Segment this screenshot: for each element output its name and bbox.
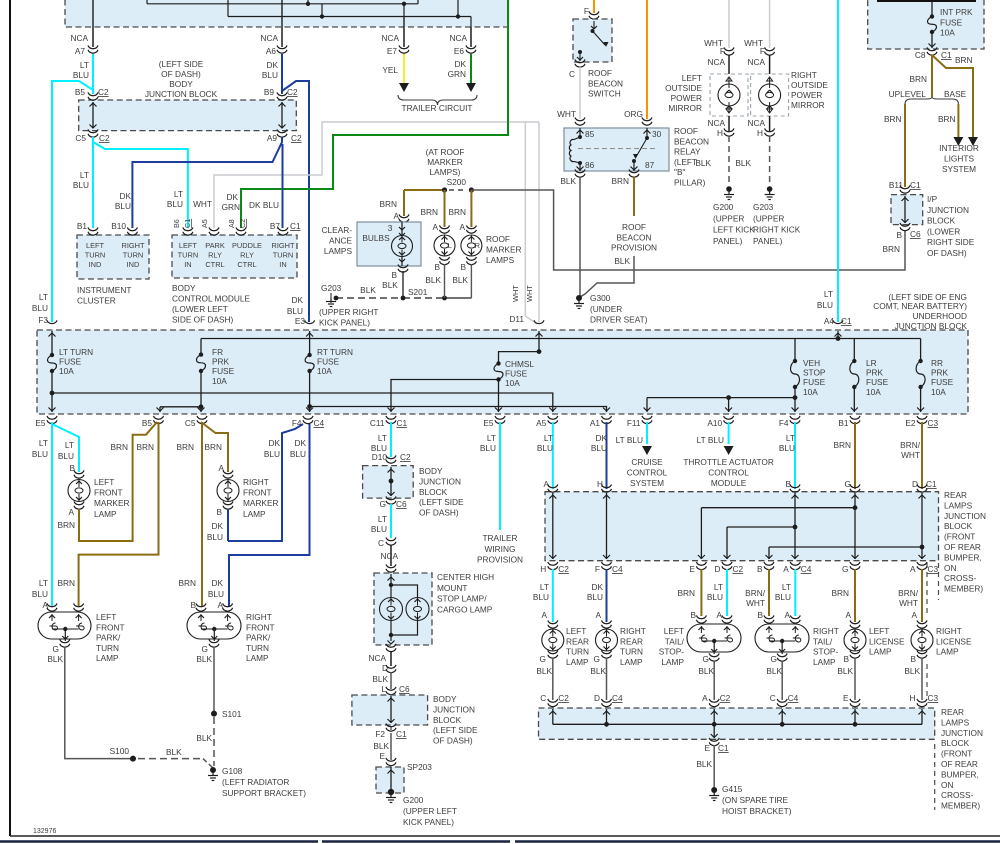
svg-text:MEMBER): MEMBER) xyxy=(944,584,983,594)
svg-text:F: F xyxy=(760,46,765,56)
svg-text:C4: C4 xyxy=(788,693,799,703)
svg-text:B9: B9 xyxy=(264,87,275,97)
svg-text:LEFT: LEFT xyxy=(682,73,702,83)
svg-text:C4: C4 xyxy=(612,564,623,574)
svg-text:BLU: BLU xyxy=(73,180,89,190)
svg-text:BLK: BLK xyxy=(372,674,388,684)
svg-text:JUNCTION: JUNCTION xyxy=(433,704,475,714)
svg-text:RIGHT: RIGHT xyxy=(936,626,962,636)
svg-text:OF DASH): OF DASH) xyxy=(927,248,967,258)
svg-text:(UPPER: (UPPER xyxy=(713,213,744,223)
svg-text:REAR: REAR xyxy=(944,490,967,500)
svg-text:ROOF: ROOF xyxy=(486,234,510,244)
svg-text:A: A xyxy=(541,610,547,620)
svg-text:G108: G108 xyxy=(222,766,243,776)
svg-text:FUSE: FUSE xyxy=(803,377,826,387)
svg-text:BLU: BLU xyxy=(707,592,723,602)
svg-text:TRAILER CIRCUIT: TRAILER CIRCUIT xyxy=(402,103,473,113)
svg-text:BLU: BLU xyxy=(287,306,303,316)
svg-text:TAIL/: TAIL/ xyxy=(813,636,833,646)
svg-text:BLU: BLU xyxy=(587,592,603,602)
svg-text:G415: G415 xyxy=(722,784,743,794)
svg-text:RIGHT: RIGHT xyxy=(243,477,269,487)
svg-text:B: B xyxy=(910,654,916,664)
svg-text:10A: 10A xyxy=(317,366,332,376)
svg-text:"B": "B" xyxy=(674,167,685,177)
svg-text:BLK: BLK xyxy=(614,256,630,266)
svg-text:INTERIOR: INTERIOR xyxy=(939,143,979,153)
svg-text:CARGO LAMP: CARGO LAMP xyxy=(437,604,493,614)
svg-text:(UPPER: (UPPER xyxy=(753,213,784,223)
svg-text:C2: C2 xyxy=(98,87,109,97)
svg-text:LEFT: LEFT xyxy=(96,612,116,622)
svg-text:LT: LT xyxy=(378,433,387,443)
svg-text:G: G xyxy=(540,654,546,664)
svg-text:WHT: WHT xyxy=(746,598,765,608)
svg-text:LT: LT xyxy=(487,433,496,443)
svg-text:JUNCTION: JUNCTION xyxy=(927,205,969,215)
svg-text:C11: C11 xyxy=(370,418,385,428)
svg-text:FUSE: FUSE xyxy=(940,17,963,27)
svg-text:MEMBER): MEMBER) xyxy=(941,801,980,811)
svg-text:BLU: BLU xyxy=(264,449,280,459)
svg-text:GRN: GRN xyxy=(448,69,466,79)
svg-text:A5: A5 xyxy=(536,418,547,428)
svg-text:KICK PANEL): KICK PANEL) xyxy=(403,817,454,827)
svg-text:85: 85 xyxy=(585,129,595,139)
svg-text:IND: IND xyxy=(127,260,140,269)
svg-text:R: R xyxy=(475,241,480,250)
svg-text:A: A xyxy=(68,507,74,517)
svg-text:BRN/: BRN/ xyxy=(900,440,921,450)
svg-text:G: G xyxy=(594,654,600,664)
svg-text:LT: LT xyxy=(80,170,89,180)
svg-text:IN: IN xyxy=(279,260,286,269)
svg-text:A: A xyxy=(911,610,917,620)
svg-text:C3: C3 xyxy=(928,564,939,574)
svg-text:E2: E2 xyxy=(905,418,916,428)
svg-text:10A: 10A xyxy=(803,387,818,397)
svg-text:G200: G200 xyxy=(713,202,734,212)
svg-text:LEFT: LEFT xyxy=(566,626,586,636)
svg-text:G203: G203 xyxy=(321,283,342,293)
svg-text:LT: LT xyxy=(540,582,549,592)
svg-text:LAMP: LAMP xyxy=(869,647,892,657)
svg-text:BODY: BODY xyxy=(419,466,443,476)
svg-text:C: C xyxy=(770,693,776,703)
svg-text:LT: LT xyxy=(782,582,791,592)
svg-text:E: E xyxy=(689,564,695,574)
svg-text:H: H xyxy=(910,693,916,703)
svg-text:B6: B6 xyxy=(172,219,181,228)
svg-text:BLK: BLK xyxy=(196,654,212,664)
svg-text:(UPPER RIGHT: (UPPER RIGHT xyxy=(319,307,378,317)
svg-text:JUNCTION: JUNCTION xyxy=(941,728,983,738)
svg-text:LAMPS): LAMPS) xyxy=(430,167,461,177)
svg-text:E7: E7 xyxy=(387,46,398,56)
svg-text:FRONT: FRONT xyxy=(246,622,275,632)
svg-text:FRONT: FRONT xyxy=(96,622,125,632)
svg-text:10A: 10A xyxy=(59,366,74,376)
svg-text:RIGHT: RIGHT xyxy=(791,70,817,80)
svg-text:LT: LT xyxy=(174,189,183,199)
svg-text:ON: ON xyxy=(941,780,953,790)
svg-text:C1: C1 xyxy=(183,219,192,228)
svg-text:CONTROL: CONTROL xyxy=(627,467,668,477)
svg-text:OF REAR: OF REAR xyxy=(944,542,981,552)
svg-text:LEFT: LEFT xyxy=(869,626,889,636)
svg-text:DRIVER SEAT): DRIVER SEAT) xyxy=(590,315,648,325)
svg-text:REAR: REAR xyxy=(941,707,964,717)
svg-text:BRN: BRN xyxy=(884,114,902,124)
svg-text:BLK: BLK xyxy=(766,666,782,676)
svg-text:JUNCTION: JUNCTION xyxy=(419,476,461,486)
svg-text:BLU: BLU xyxy=(208,589,224,599)
svg-text:LAMP: LAMP xyxy=(620,657,643,667)
svg-text:LAMP: LAMP xyxy=(936,647,959,657)
svg-text:TURN: TURN xyxy=(123,250,144,259)
svg-text:WIRING: WIRING xyxy=(485,544,516,554)
svg-text:LT: LT xyxy=(714,582,723,592)
svg-text:G: G xyxy=(842,564,848,574)
svg-text:SUPPORT BRACKET): SUPPORT BRACKET) xyxy=(222,788,306,798)
svg-text:OF DASH): OF DASH) xyxy=(419,508,459,518)
svg-text:DK: DK xyxy=(226,192,238,202)
svg-text:LAMP: LAMP xyxy=(94,509,117,519)
svg-text:C8: C8 xyxy=(915,50,926,60)
svg-text:G: G xyxy=(703,654,709,664)
svg-text:10A: 10A xyxy=(940,28,955,38)
svg-text:B5: B5 xyxy=(75,87,86,97)
svg-text:ROOF: ROOF xyxy=(588,68,612,78)
svg-text:OF DASH): OF DASH) xyxy=(161,69,201,79)
svg-text:A5: A5 xyxy=(200,219,209,228)
svg-text:C5: C5 xyxy=(185,418,196,428)
svg-text:TURN: TURN xyxy=(620,647,643,657)
svg-text:COMT, NEAR BATTERY): COMT, NEAR BATTERY) xyxy=(873,301,967,311)
svg-text:LEFT: LEFT xyxy=(179,241,198,250)
svg-text:D11: D11 xyxy=(509,314,524,324)
svg-text:DK: DK xyxy=(291,295,303,305)
svg-text:BASE: BASE xyxy=(944,89,967,99)
svg-text:RIGHT: RIGHT xyxy=(246,612,272,622)
svg-text:LAMPS: LAMPS xyxy=(941,717,970,727)
svg-text:SYSTEM: SYSTEM xyxy=(630,478,664,488)
svg-text:D: D xyxy=(594,693,600,703)
svg-text:B: B xyxy=(896,230,902,240)
svg-text:S101: S101 xyxy=(222,709,242,719)
svg-text:BLU: BLU xyxy=(817,300,833,310)
svg-text:RIGHT: RIGHT xyxy=(272,241,295,250)
svg-text:B5: B5 xyxy=(142,418,153,428)
svg-text:S100: S100 xyxy=(110,746,130,756)
svg-text:C4: C4 xyxy=(314,418,325,428)
svg-text:LT BLU: LT BLU xyxy=(616,435,643,445)
svg-text:LAMPS: LAMPS xyxy=(944,500,973,510)
svg-text:LAMP: LAMP xyxy=(813,657,836,667)
svg-text:FRONT: FRONT xyxy=(243,488,272,498)
svg-text:C2: C2 xyxy=(720,693,731,703)
svg-text:C2: C2 xyxy=(287,87,298,97)
svg-text:BEACON: BEACON xyxy=(674,136,709,146)
svg-text:(LOWER LEFT: (LOWER LEFT xyxy=(172,304,228,314)
svg-text:A: A xyxy=(845,610,851,620)
svg-text:BLU: BLU xyxy=(591,443,607,453)
svg-text:BLK: BLK xyxy=(360,285,376,295)
svg-text:E: E xyxy=(843,693,849,703)
svg-text:B: B xyxy=(757,564,763,574)
svg-text:E: E xyxy=(379,751,385,761)
svg-text:C2: C2 xyxy=(400,452,411,462)
svg-text:BODY: BODY xyxy=(169,79,193,89)
svg-text:(AT ROOF: (AT ROOF xyxy=(426,147,465,157)
svg-text:PANEL): PANEL) xyxy=(753,236,783,246)
svg-text:RIGHT SIDE: RIGHT SIDE xyxy=(927,237,975,247)
svg-text:3: 3 xyxy=(388,223,393,233)
svg-text:THROTTLE ACTUATOR: THROTTLE ACTUATOR xyxy=(683,457,774,467)
svg-text:LEFT: LEFT xyxy=(86,241,105,250)
svg-text:BULBS: BULBS xyxy=(362,233,390,243)
svg-text:INSTRUMENT: INSTRUMENT xyxy=(77,285,131,295)
svg-text:PARK/: PARK/ xyxy=(246,633,271,643)
svg-text:D: D xyxy=(912,479,918,489)
svg-text:B1: B1 xyxy=(77,221,88,231)
svg-text:NCA: NCA xyxy=(70,33,88,43)
svg-text:PANEL): PANEL) xyxy=(713,236,743,246)
svg-text:30: 30 xyxy=(652,129,662,139)
svg-text:(LEFT RADIATOR: (LEFT RADIATOR xyxy=(222,777,289,787)
svg-text:JUNCTION BLOCK: JUNCTION BLOCK xyxy=(145,89,218,99)
svg-text:MARKER: MARKER xyxy=(486,245,522,255)
svg-text:FUSE: FUSE xyxy=(59,357,82,367)
svg-text:ROOF: ROOF xyxy=(622,222,646,232)
svg-text:RIGHT KICK: RIGHT KICK xyxy=(753,225,801,235)
svg-text:DK: DK xyxy=(268,438,280,448)
svg-text:BLU: BLU xyxy=(32,589,48,599)
svg-text:BUMPER,: BUMPER, xyxy=(941,769,979,779)
svg-text:NCA: NCA xyxy=(449,33,467,43)
svg-text:BLU: BLU xyxy=(775,592,791,602)
svg-text:L: L xyxy=(448,241,452,250)
svg-text:WHT: WHT xyxy=(511,285,520,302)
svg-text:(FRONT: (FRONT xyxy=(941,749,972,759)
svg-text:MARKER: MARKER xyxy=(94,498,130,508)
svg-text:KICK PANEL): KICK PANEL) xyxy=(319,318,370,328)
svg-text:BLK: BLK xyxy=(166,747,182,757)
svg-text:CLUSTER: CLUSTER xyxy=(77,296,116,306)
svg-text:BRN: BRN xyxy=(955,55,973,65)
svg-text:A: A xyxy=(910,564,916,574)
svg-text:FUSE: FUSE xyxy=(505,369,528,379)
svg-text:DK: DK xyxy=(595,433,607,443)
svg-text:C6: C6 xyxy=(399,684,410,694)
svg-text:F: F xyxy=(595,564,600,574)
svg-text:BEACON: BEACON xyxy=(616,232,651,242)
svg-text:(LEFT SIDE: (LEFT SIDE xyxy=(419,497,464,507)
svg-text:A8: A8 xyxy=(227,219,236,228)
svg-text:PRK: PRK xyxy=(212,357,230,367)
svg-text:TURN: TURN xyxy=(96,643,119,653)
svg-text:C1: C1 xyxy=(290,221,301,231)
svg-text:BRN: BRN xyxy=(178,578,196,588)
svg-text:ON: ON xyxy=(944,563,956,573)
svg-text:10A: 10A xyxy=(212,376,227,386)
svg-text:BRN: BRN xyxy=(448,207,466,217)
svg-text:POWER: POWER xyxy=(671,93,702,103)
svg-text:F4: F4 xyxy=(779,418,789,428)
svg-text:C2: C2 xyxy=(558,693,569,703)
svg-text:BLK: BLK xyxy=(425,275,441,285)
svg-text:FR: FR xyxy=(212,347,223,357)
svg-text:NCA: NCA xyxy=(747,118,765,128)
svg-text:GRN: GRN xyxy=(222,202,240,212)
svg-text:RIGHT: RIGHT xyxy=(122,241,145,250)
svg-text:LT BLU: LT BLU xyxy=(697,435,724,445)
svg-text:BLK: BLK xyxy=(452,275,468,285)
svg-text:B: B xyxy=(190,600,196,610)
svg-text:BLK: BLK xyxy=(536,666,552,676)
svg-text:BLOCK: BLOCK xyxy=(944,521,973,531)
svg-text:TURN: TURN xyxy=(85,250,106,259)
svg-text:NCA: NCA xyxy=(707,57,725,67)
svg-text:BRN/: BRN/ xyxy=(745,588,766,598)
svg-text:NCA: NCA xyxy=(747,57,765,67)
svg-text:CTRL: CTRL xyxy=(237,260,256,269)
svg-text:SP203: SP203 xyxy=(407,762,432,772)
svg-text:BLU: BLU xyxy=(32,449,48,459)
svg-text:LIGHTS: LIGHTS xyxy=(944,154,974,164)
svg-text:RT TURN: RT TURN xyxy=(317,347,353,357)
svg-text:DK: DK xyxy=(591,582,603,592)
svg-text:S201: S201 xyxy=(408,287,428,297)
svg-text:A: A xyxy=(393,211,399,221)
svg-text:LEFT KICK: LEFT KICK xyxy=(713,225,755,235)
svg-text:WHT: WHT xyxy=(525,285,534,302)
svg-text:POWER: POWER xyxy=(791,90,822,100)
svg-text:YEL: YEL xyxy=(382,65,398,75)
svg-text:A: A xyxy=(595,610,601,620)
svg-text:C3: C3 xyxy=(928,418,939,428)
svg-text:BLK: BLK xyxy=(196,733,212,743)
svg-text:BRN: BRN xyxy=(204,442,222,452)
svg-text:LT: LT xyxy=(824,289,833,299)
svg-text:BLU: BLU xyxy=(262,70,278,80)
svg-text:BRN: BRN xyxy=(677,588,695,598)
svg-text:RELAY: RELAY xyxy=(674,147,701,157)
svg-text:BLU: BLU xyxy=(533,592,549,602)
svg-text:WHT: WHT xyxy=(193,199,212,209)
svg-text:C2: C2 xyxy=(99,133,110,143)
svg-text:FUSE: FUSE xyxy=(212,366,235,376)
svg-text:BLOCK: BLOCK xyxy=(941,738,970,748)
svg-text:UNDERHOOD: UNDERHOOD xyxy=(913,311,967,321)
svg-text:BLOCK: BLOCK xyxy=(927,216,956,226)
svg-text:PROVISION: PROVISION xyxy=(477,555,523,565)
svg-text:C5: C5 xyxy=(75,133,86,143)
svg-text:B1: B1 xyxy=(838,418,849,428)
svg-text:F3: F3 xyxy=(38,315,48,325)
svg-text:BODY: BODY xyxy=(172,283,196,293)
svg-text:I/P: I/P xyxy=(927,194,938,204)
svg-text:LICENSE: LICENSE xyxy=(936,636,972,646)
svg-text:LAMP: LAMP xyxy=(96,653,119,663)
svg-text:D: D xyxy=(715,564,721,574)
svg-text:A1: A1 xyxy=(590,418,601,428)
svg-text:DK: DK xyxy=(454,59,466,69)
svg-text:G203: G203 xyxy=(753,202,774,212)
svg-text:BLOCK: BLOCK xyxy=(433,715,462,725)
svg-text:F: F xyxy=(720,46,725,56)
svg-text:BLU: BLU xyxy=(480,443,496,453)
svg-text:BLK: BLK xyxy=(47,654,63,664)
svg-text:A9: A9 xyxy=(267,133,278,143)
svg-text:PILLAR): PILLAR) xyxy=(674,178,706,188)
svg-text:C1: C1 xyxy=(397,418,408,428)
svg-text:LT: LT xyxy=(39,292,48,302)
svg-text:BLK: BLK xyxy=(735,158,751,168)
svg-text:BUMPER,: BUMPER, xyxy=(944,552,982,562)
svg-text:STOP LAMP/: STOP LAMP/ xyxy=(437,594,487,604)
svg-text:RR: RR xyxy=(931,358,943,368)
svg-text:NCA: NCA xyxy=(707,118,725,128)
svg-text:A: A xyxy=(702,693,708,703)
svg-text:BLU: BLU xyxy=(167,199,183,209)
svg-text:BLU: BLU xyxy=(779,443,795,453)
svg-text:C1: C1 xyxy=(941,50,952,60)
svg-text:F: F xyxy=(584,6,589,16)
svg-text:PARK: PARK xyxy=(205,241,225,250)
svg-text:BLU: BLU xyxy=(32,303,48,313)
svg-text:G: G xyxy=(845,479,851,489)
svg-text:BRN: BRN xyxy=(909,74,927,84)
svg-text:PROVISION: PROVISION xyxy=(611,243,657,253)
svg-text:BRN: BRN xyxy=(938,114,956,124)
svg-text:BLK: BLK xyxy=(695,158,711,168)
svg-text:132976: 132976 xyxy=(33,828,56,835)
svg-text:ORG: ORG xyxy=(624,109,643,119)
svg-text:IN: IN xyxy=(184,260,191,269)
svg-text:C3: C3 xyxy=(928,693,939,703)
svg-text:TURN: TURN xyxy=(273,250,294,259)
svg-text:BLOCK: BLOCK xyxy=(419,487,448,497)
svg-text:(LOWER: (LOWER xyxy=(927,226,960,236)
svg-text:C2: C2 xyxy=(291,133,302,143)
svg-text:BRN: BRN xyxy=(110,442,128,452)
svg-text:87: 87 xyxy=(645,160,655,170)
svg-text:NCA: NCA xyxy=(380,551,398,561)
svg-text:A: A xyxy=(784,610,790,620)
svg-text:A6: A6 xyxy=(266,46,277,56)
svg-text:CENTER HIGH: CENTER HIGH xyxy=(437,572,494,582)
svg-text:BLK: BLK xyxy=(590,666,606,676)
svg-text:CTRL: CTRL xyxy=(205,260,224,269)
svg-text:B: B xyxy=(460,262,466,272)
svg-text:RLY: RLY xyxy=(240,250,254,259)
svg-text:FRONT: FRONT xyxy=(94,488,123,498)
svg-text:C2: C2 xyxy=(558,564,569,574)
svg-text:LICENSE: LICENSE xyxy=(869,636,905,646)
svg-text:TAIL/: TAIL/ xyxy=(665,636,685,646)
svg-text:B: B xyxy=(690,610,696,620)
svg-text:PRK: PRK xyxy=(866,368,884,378)
svg-text:JUNCTION: JUNCTION xyxy=(944,511,986,521)
svg-text:BRN: BRN xyxy=(420,207,438,217)
svg-text:FUSE: FUSE xyxy=(931,377,954,387)
svg-text:BRN: BRN xyxy=(57,578,75,588)
svg-text:B: B xyxy=(757,610,763,620)
svg-text:L: L xyxy=(381,684,386,694)
svg-text:STOP: STOP xyxy=(803,368,826,378)
